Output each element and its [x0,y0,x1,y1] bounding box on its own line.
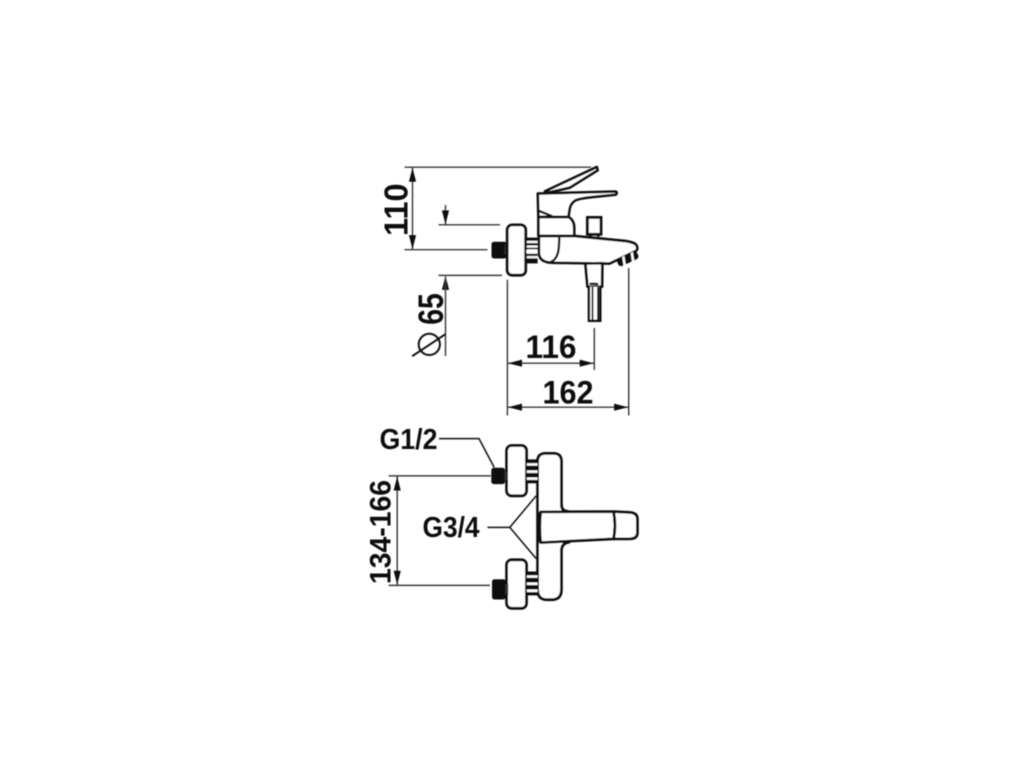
svg-text:110: 110 [377,183,414,236]
diameter symbol [419,334,440,355]
handle front edge (interior diagonal) [538,210,553,216]
leader G3/4 [488,496,537,559]
leader G1/2 [439,439,494,468]
top escutcheon (front view) [507,446,527,496]
extension line escutcheon bottom [439,274,503,276]
extension line escutcheon top [439,224,501,226]
extension line top inlet [389,475,491,477]
connector dash [590,283,599,286]
extension line bottom inlet [389,584,490,586]
diverter knob (side view) [587,217,601,234]
dimension line 162 [507,406,628,408]
escutcheon (side view) [507,225,526,275]
bottom hex nut [492,579,506,599]
cartridge collar (side view) [538,217,574,236]
hex nut (side view) [492,242,507,259]
top threads [527,459,538,483]
handle end cap (front view) [614,512,638,539]
threads (side view) [526,238,538,264]
shower outlet connector (side view) [585,263,602,287]
aerator (side view) [616,250,639,267]
dimension line 110 [412,167,414,250]
bottom threads [527,572,538,596]
svg-text:116: 116 [526,329,577,365]
top hex nut [491,468,505,484]
body front curve (interior U) [548,237,560,263]
extension line spout tip [628,268,630,416]
dimension leader d65 [445,205,447,224]
extension line bottom (wall inlet level) [405,249,488,251]
extension line top (lever tip level) [405,166,592,168]
svg-text:162: 162 [543,374,594,410]
bottom escutcheon (front view) [507,560,527,609]
svg-text:65: 65 [412,293,451,325]
svg-text:134-166: 134-166 [365,480,398,584]
dimension line 116 [507,362,594,364]
handle body (side view) [538,192,617,217]
extension line pipe centre [593,328,595,370]
svg-text:G1/2: G1/2 [380,424,438,456]
dimension line 134-166 [396,476,398,586]
spout / body (side view) [539,236,637,264]
shower pipe (side view) [589,287,600,321]
extension line wall plane (left, below) [506,280,508,416]
lever handle (side view) [545,167,598,193]
handle (front view) [540,512,615,543]
body column (front view) [538,453,569,599]
svg-text:G3/4: G3/4 [423,512,480,544]
